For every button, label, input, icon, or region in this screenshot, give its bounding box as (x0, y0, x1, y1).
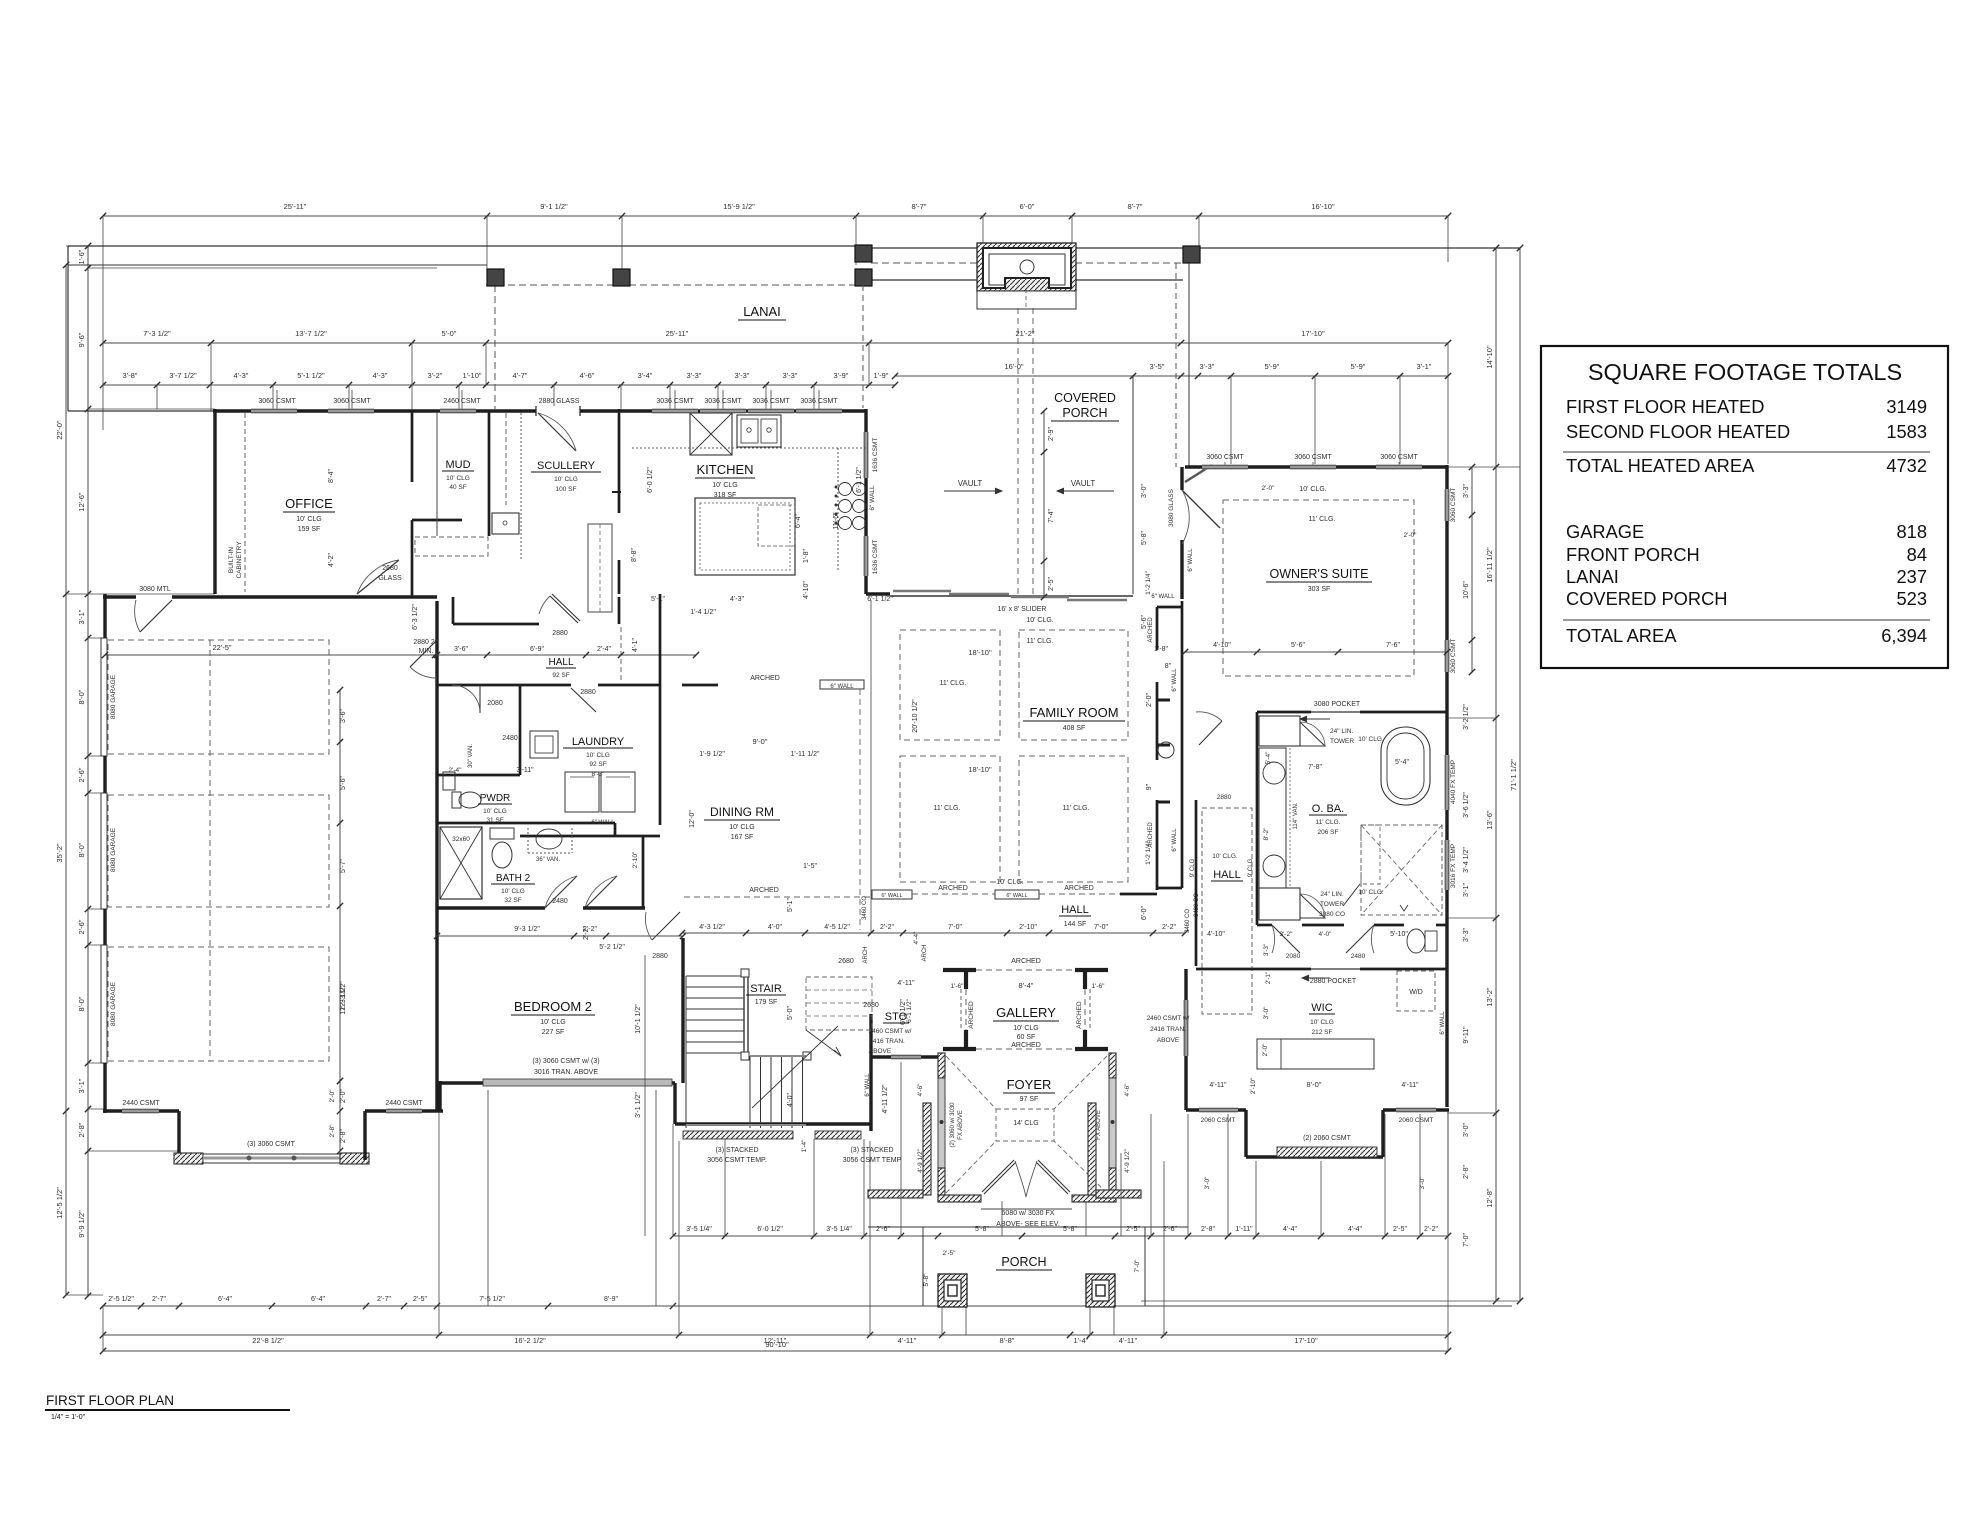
svg-text:6" WALL: 6" WALL (1006, 893, 1027, 899)
svg-text:4'-6": 4'-6" (917, 1083, 924, 1097)
wic island (1257, 1039, 1374, 1069)
svg-text:17'-10": 17'-10" (1294, 1336, 1318, 1345)
svg-text:2'-8": 2'-8" (340, 1129, 347, 1143)
foyer ceiling dashed diagonals (946, 1056, 996, 1109)
svg-text:ARCHED: ARCHED (938, 885, 968, 892)
gallery pier bottom-right (1075, 1047, 1108, 1051)
svg-text:PORCH: PORCH (1062, 406, 1107, 420)
svg-text:10' CLG: 10' CLG (296, 516, 321, 523)
foyer bottom wall right (1072, 1195, 1116, 1202)
svg-text:SECOND FLOOR HEATED: SECOND FLOOR HEATED (1566, 421, 1790, 442)
svg-text:2880 GLASS: 2880 GLASS (539, 398, 580, 405)
svg-text:2880 POCKET: 2880 POCKET (1310, 978, 1357, 985)
foyer west window (938, 1078, 945, 1168)
svg-text:8'-0": 8'-0" (77, 996, 86, 1011)
svg-text:3016 FX TEMP: 3016 FX TEMP (1450, 844, 1457, 888)
bottom dimension row B2 (103, 1334, 1448, 1336)
svg-text:408 SF: 408 SF (1063, 725, 1086, 732)
door 2480 wc (1346, 925, 1374, 953)
svg-text:1/4" = 1'-0": 1/4" = 1'-0" (51, 1414, 86, 1421)
foyer west wall hatched (938, 1053, 945, 1078)
fireplace outer hatched walls (977, 243, 1076, 291)
svg-text:1'-4 1/2": 1'-4 1/2" (690, 609, 716, 616)
svg-text:5'-6": 5'-6" (1291, 642, 1305, 649)
svg-text:5'-0": 5'-0" (442, 329, 457, 338)
svg-text:ABOVE: ABOVE (869, 1048, 892, 1055)
svg-text:4'-7": 4'-7" (513, 371, 528, 380)
svg-text:10' CLG.: 10' CLG. (1299, 486, 1326, 493)
svg-text:6'-1 1/2": 6'-1 1/2" (867, 596, 893, 603)
svg-text:13'-6": 13'-6" (1485, 810, 1494, 829)
svg-text:5'-9": 5'-9" (1265, 362, 1280, 371)
owners suite south wall with pocket door (1257, 711, 1311, 714)
svg-text:2'-10": 2'-10" (1250, 1077, 1257, 1094)
svg-text:13'-7 1/2": 13'-7 1/2" (295, 329, 327, 338)
svg-text:4'-6": 4'-6" (1124, 1083, 1131, 1097)
linen tower bottom (1259, 888, 1300, 920)
svg-text:2'-0": 2'-0" (1146, 693, 1153, 707)
svg-text:4'-3": 4'-3" (373, 371, 388, 380)
svg-text:3'-0": 3'-0" (1463, 1123, 1470, 1137)
svg-text:7'-4": 7'-4" (1048, 509, 1055, 523)
svg-text:8": 8" (1165, 663, 1172, 670)
svg-text:2'-7": 2'-7" (377, 1296, 391, 1303)
svg-text:ARCHED: ARCHED (1064, 885, 1094, 892)
bedroom2 window sill (483, 1079, 672, 1086)
lanai post 1 (487, 269, 504, 286)
svg-text:2680: 2680 (382, 565, 398, 572)
svg-text:3'-2": 3'-2" (1280, 931, 1294, 938)
svg-text:6" WALL: 6" WALL (1172, 828, 1178, 852)
svg-text:4'-0": 4'-0" (768, 924, 782, 931)
garage front wall right (365, 1109, 443, 1112)
stair lower flight risers (749, 1056, 751, 1128)
porch slab lines (922, 1227, 924, 1306)
svg-text:16' x 8' SLIDER: 16' x 8' SLIDER (998, 606, 1047, 613)
svg-text:22'-5": 22'-5" (212, 643, 231, 652)
svg-text:3080 CO: 3080 CO (1319, 911, 1345, 918)
svg-text:16'-11 1/2": 16'-11 1/2" (1485, 547, 1494, 583)
svg-text:4'-10": 4'-10" (1207, 931, 1225, 938)
covered porch dashed boundary (871, 262, 978, 264)
bath2 toilet (492, 842, 512, 868)
bedroom2 east wall (681, 938, 684, 1083)
svg-text:FIRST FLOOR PLAN: FIRST FLOOR PLAN (46, 1393, 174, 1408)
niche circle (1158, 742, 1174, 758)
door 3080 MTL (140, 600, 172, 632)
svg-text:3'-11": 3'-11" (516, 767, 534, 774)
svg-text:3060 CSMT: 3060 CSMT (1206, 454, 1244, 461)
svg-text:11' CLG.: 11' CLG. (1063, 805, 1090, 812)
scullery west counter dotted (520, 413, 522, 560)
svg-text:COVERED: COVERED (1054, 391, 1116, 405)
svg-text:8080 GARAGE: 8080 GARAGE (110, 827, 117, 872)
svg-text:HALL: HALL (1213, 869, 1241, 881)
laundry walls (659, 594, 662, 685)
svg-text:3'-3": 3'-3" (735, 371, 750, 380)
svg-text:GALLERY: GALLERY (996, 1005, 1056, 1020)
window 2440 CSMT garage left (122, 1109, 159, 1114)
svg-text:4'-3 1/2": 4'-3 1/2" (699, 924, 725, 931)
svg-text:LAUNDRY: LAUNDRY (572, 736, 625, 748)
svg-text:1636 CSMT: 1636 CSMT (872, 438, 879, 473)
svg-text:3460 CO: 3460 CO (862, 896, 868, 920)
svg-text:2'-4": 2'-4" (449, 767, 463, 774)
gallery pier top-left (943, 968, 976, 972)
svg-text:3'-0": 3'-0" (1263, 1006, 1270, 1020)
svg-text:4732: 4732 (1886, 455, 1927, 476)
svg-text:10' CLG: 10' CLG (446, 475, 470, 482)
svg-text:4'-11 1/2": 4'-11 1/2" (882, 1084, 889, 1114)
fireplace hearth (977, 291, 1076, 309)
owners suite east windows (1445, 489, 1450, 521)
svg-text:5'-2 1/2": 5'-2 1/2" (599, 944, 625, 951)
owner suite corner diagonal window (1185, 465, 1212, 482)
lanai dashed boundary left (486, 284, 857, 286)
mud bench dashed (415, 537, 488, 556)
family room dashed tray rect B (1019, 630, 1128, 740)
svg-text:84: 84 (1907, 544, 1927, 565)
svg-text:3'-1": 3'-1" (1417, 362, 1432, 371)
kitchen east wall (864, 409, 867, 594)
svg-text:4'-5 1/2": 4'-5 1/2" (824, 924, 850, 931)
fireplace circle (1020, 260, 1034, 274)
svg-text:4'-1": 4'-1" (632, 638, 639, 652)
bottom dimension row small left (103, 1305, 673, 1307)
svg-text:4'-11": 4'-11" (1401, 1082, 1419, 1089)
svg-text:1'-11 1/2": 1'-11 1/2" (791, 751, 821, 758)
svg-text:3'-6 1/2": 3'-6 1/2" (1463, 792, 1470, 818)
svg-text:32x60: 32x60 (452, 836, 470, 843)
square footage table frame (1541, 346, 1948, 668)
dining east dashed ceiling (859, 689, 861, 930)
foyer double door leaves (982, 1160, 1014, 1192)
window 3036 CSMT kitchen 4 (796, 409, 842, 414)
right small dims (1471, 467, 1473, 672)
svg-text:2880: 2880 (652, 953, 668, 960)
svg-text:22'-0": 22'-0" (55, 420, 64, 439)
table separator line 2 (1563, 619, 1930, 621)
svg-text:ARCH: ARCH (863, 946, 869, 963)
dining north arched wall (682, 684, 718, 687)
svg-text:PORCH: PORCH (1001, 1255, 1046, 1269)
wing south wall main (172, 595, 437, 598)
svg-text:3'-0": 3'-0" (1204, 1176, 1211, 1190)
door 2680 GLASS office (357, 560, 399, 594)
svg-text:4'-4": 4'-4" (1283, 1226, 1297, 1233)
svg-text:20'-10 1/2": 20'-10 1/2" (912, 699, 919, 733)
svg-text:2'-2": 2'-2" (583, 926, 590, 940)
title underline (45, 1409, 290, 1411)
svg-text:3'-2 1/2": 3'-2 1/2" (1463, 704, 1470, 730)
garage-bedroom corner connector (438, 1081, 441, 1111)
top dimension row 3 right (895, 375, 1448, 377)
svg-text:3'-4": 3'-4" (638, 371, 653, 380)
svg-text:8'-4": 8'-4" (1019, 981, 1034, 990)
svg-text:4'-10": 4'-10" (803, 581, 810, 599)
stair break line (752, 1026, 838, 1108)
svg-text:10'-6": 10'-6" (1463, 581, 1470, 599)
svg-text:2'-9": 2'-9" (1048, 427, 1055, 441)
scullery dashed cabinet lines (505, 413, 507, 505)
svg-text:FX ABOVE: FX ABOVE (1096, 1110, 1102, 1140)
left extension lines (66, 245, 103, 247)
svg-text:8'-2": 8'-2" (1263, 827, 1270, 841)
svg-text:2'-8": 2'-8" (77, 1122, 86, 1137)
svg-text:3060 CSMT: 3060 CSMT (1450, 639, 1457, 674)
stair window sill left (683, 1131, 793, 1139)
svg-text:1'-8": 1'-8" (803, 549, 810, 563)
closet pwdr block walls (436, 685, 439, 823)
svg-text:11' CLG.: 11' CLG. (1316, 819, 1341, 826)
svg-text:3080 MTL: 3080 MTL (139, 586, 171, 593)
svg-text:3'-7 1/2": 3'-7 1/2" (169, 371, 197, 380)
mud locker divider (436, 413, 438, 536)
svg-text:6'-4": 6'-4" (218, 1296, 232, 1303)
garage bay window band (203, 1154, 340, 1163)
svg-text:6" WALL: 6" WALL (881, 893, 902, 899)
laundry sink (530, 731, 558, 758)
svg-text:11' CLG.: 11' CLG. (1027, 638, 1054, 645)
svg-text:1636 CSMT: 1636 CSMT (872, 540, 879, 575)
wic bay right wall (1381, 1110, 1384, 1157)
covered porch post (1183, 246, 1200, 263)
svg-text:2440 CSMT: 2440 CSMT (122, 1100, 160, 1107)
family east wall mid (1156, 682, 1159, 760)
sto south wall (871, 1055, 938, 1058)
owners suite east wall (1445, 465, 1448, 1107)
svg-text:2'-0": 2'-0" (340, 1089, 347, 1103)
lanai dashed vertical at post line (494, 285, 496, 409)
svg-text:FIRST FLOOR HEATED: FIRST FLOOR HEATED (1566, 396, 1764, 417)
svg-text:6'-1 1/2": 6'-1 1/2" (856, 467, 863, 493)
shower door (1343, 884, 1360, 906)
svg-text:6080 w/ 3030 FX: 6080 w/ 3030 FX (1002, 1210, 1055, 1217)
gallery arch dashed right (1084, 989, 1086, 1030)
svg-text:6'-0 1/2": 6'-0 1/2" (647, 467, 654, 493)
svg-text:3'-5": 3'-5" (1150, 362, 1165, 371)
svg-text:3080 POCKET: 3080 POCKET (1314, 701, 1361, 708)
gallery arch dashed top (976, 969, 1075, 971)
svg-text:1'-5": 1'-5" (803, 863, 817, 870)
stair lower tread edge (750, 1055, 806, 1057)
svg-text:97 SF: 97 SF (1020, 1096, 1039, 1103)
svg-text:2880: 2880 (580, 689, 596, 696)
right dimension column outer (1519, 248, 1521, 1301)
svg-text:3'-6": 3'-6" (340, 709, 347, 723)
svg-text:5'-1 1/2": 5'-1 1/2" (297, 371, 325, 380)
svg-text:8'-0": 8'-0" (77, 689, 86, 704)
garage west wall bottom segment (103, 1063, 106, 1113)
garage bay window jog right (363, 1111, 366, 1160)
top dimension row 3 left (103, 384, 895, 386)
owner suite west wall (1180, 467, 1183, 490)
svg-text:2'-5": 2'-5" (413, 1296, 427, 1303)
svg-text:12'-8": 12'-8" (1485, 1188, 1494, 1207)
lanai bottom edge to office wall (68, 410, 215, 412)
svg-text:(3) STACKED: (3) STACKED (850, 1147, 893, 1154)
svg-text:30" VAN.: 30" VAN. (468, 744, 474, 768)
svg-text:6" WALL: 6" WALL (830, 684, 854, 690)
svg-text:CABINETRY: CABINETRY (236, 541, 243, 579)
svg-text:6" WALL: 6" WALL (865, 1073, 871, 1097)
bedroom2 front wall (437, 1081, 675, 1084)
svg-text:3060 CSMT: 3060 CSMT (1380, 454, 1418, 461)
wc closet wall (642, 836, 645, 908)
garage door dashed bay 2 (108, 795, 329, 907)
svg-text:7'-0": 7'-0" (1094, 924, 1108, 931)
svg-text:GLASS: GLASS (378, 575, 402, 582)
svg-text:18'-10": 18'-10" (968, 765, 992, 774)
beam line fireplace to post4 (1076, 247, 1183, 249)
garage door 1 (101, 638, 107, 756)
svg-text:FOYER: FOYER (1007, 1077, 1052, 1092)
svg-text:GARAGE: GARAGE (1566, 521, 1644, 542)
svg-text:6'-3 1/2": 6'-3 1/2" (412, 604, 419, 630)
svg-text:8'-8": 8'-8" (631, 548, 638, 562)
svg-text:2440 CSMT: 2440 CSMT (385, 1100, 423, 1107)
svg-text:6,394: 6,394 (1881, 625, 1927, 646)
long front extension line (673, 1305, 1512, 1307)
svg-text:2080: 2080 (1286, 953, 1301, 960)
svg-text:3016 TRAN. ABOVE: 3016 TRAN. ABOVE (534, 1069, 598, 1076)
window 1636 CSMT kitchen wall lower (864, 536, 869, 576)
scullery hall east wall (618, 597, 621, 624)
oba west wall (1256, 712, 1259, 925)
svg-text:MUD: MUD (445, 459, 470, 471)
kitchen wall extension line (870, 600, 872, 933)
svg-text:4040 FX TEMP: 4040 FX TEMP (1450, 760, 1457, 804)
svg-text:3'-9": 3'-9" (834, 371, 849, 380)
porch column left (938, 1274, 967, 1307)
svg-text:1'-4": 1'-4" (801, 1139, 808, 1153)
svg-text:25'-11": 25'-11" (284, 202, 307, 211)
svg-text:5'-8": 5'-8" (923, 1273, 930, 1287)
svg-text:OFFICE: OFFICE (285, 496, 333, 511)
svg-text:3'-2": 3'-2" (428, 371, 443, 380)
kitchen sink double (737, 415, 781, 447)
svg-text:4'-9 1/2": 4'-9 1/2" (1124, 1148, 1131, 1172)
svg-text:SCULLERY: SCULLERY (537, 460, 596, 472)
svg-text:303 SF: 303 SF (1308, 586, 1331, 593)
svg-text:10' CLG: 10' CLG (1310, 1019, 1334, 1026)
svg-text:TOTAL AREA: TOTAL AREA (1566, 625, 1677, 646)
svg-text:3060 CSMT: 3060 CSMT (1294, 454, 1332, 461)
svg-text:HALL: HALL (1061, 904, 1089, 916)
garage bay hatched corner left (174, 1153, 203, 1164)
svg-text:BATH 2: BATH 2 (496, 873, 531, 884)
svg-text:2'-1": 2'-1" (1266, 972, 1272, 984)
office built-in dashed cabinetry (244, 413, 246, 592)
svg-text:2'-5 1/2": 2'-5 1/2" (108, 1296, 134, 1303)
hall west wall lower (1195, 800, 1198, 966)
svg-text:12'-5 1/2": 12'-5 1/2" (55, 1187, 64, 1219)
svg-text:LANAI: LANAI (1566, 566, 1619, 587)
svg-text:3'-1": 3'-1" (1463, 883, 1470, 897)
svg-text:COVERED PORCH: COVERED PORCH (1566, 588, 1728, 609)
chimney flue dashed lines (1017, 308, 1019, 594)
svg-text:10' CLG.: 10' CLG. (1212, 853, 1238, 860)
svg-text:2'-2": 2'-2" (1162, 924, 1176, 931)
gallery pier top-right (1075, 968, 1108, 972)
porch column right (1086, 1274, 1115, 1307)
hall south wall segments with arches (684, 896, 872, 898)
svg-text:2'-8": 2'-8" (1201, 1226, 1215, 1233)
bottom dimension row total (103, 1350, 1448, 1352)
window center leaders top (276, 390, 278, 409)
window 2440 CSMT garage right (386, 1109, 422, 1114)
top dimension row 1 (103, 215, 1448, 217)
svg-text:ARCHED: ARCHED (1148, 822, 1154, 848)
svg-text:6" WALL: 6" WALL (1188, 548, 1194, 572)
wic north wall with pocket door (1196, 968, 1311, 971)
svg-text:8'-7": 8'-7" (1128, 202, 1143, 211)
svg-text:10' CLG: 10' CLG (501, 888, 525, 895)
office closet wall (412, 519, 462, 522)
door 2080 closet (479, 685, 481, 713)
svg-text:(3) 3060 CSMT w/ (3): (3) 3060 CSMT w/ (3) (532, 1058, 599, 1065)
scullery south wall (452, 597, 455, 624)
svg-text:ABOVE: ABOVE (1157, 1037, 1180, 1044)
stair dashed upper outline (806, 977, 872, 1030)
garage door dashed bay 3 (108, 947, 329, 1061)
wic window left (1199, 1108, 1238, 1113)
bedroom2 dim row (437, 935, 683, 937)
lanai post 2 (613, 269, 630, 286)
window 3060 CSMT office 2 (328, 409, 374, 414)
svg-text:2'-5": 2'-5" (1048, 577, 1055, 591)
svg-text:4'-2": 4'-2" (328, 553, 335, 567)
svg-text:10' CLG.: 10' CLG. (1358, 889, 1384, 896)
svg-text:8'-3": 8'-3" (592, 771, 606, 778)
svg-text:6" WALL: 6" WALL (1151, 594, 1175, 600)
svg-text:15'-9 1/2": 15'-9 1/2" (723, 202, 755, 211)
svg-text:206 SF: 206 SF (1318, 829, 1339, 836)
svg-text:7'-0": 7'-0" (1463, 1233, 1470, 1247)
svg-text:DINING RM: DINING RM (710, 805, 774, 819)
svg-text:1'-11": 1'-11" (1235, 1226, 1253, 1233)
right hall dashed ceiling (1202, 808, 1252, 1014)
svg-text:6" WALL: 6" WALL (1440, 1011, 1446, 1035)
wic window right (1396, 1108, 1436, 1113)
bath2 shower 32x60 (440, 827, 482, 899)
svg-text:2480: 2480 (502, 735, 518, 742)
garage interior dashed line (209, 640, 211, 1061)
svg-text:2'-5": 2'-5" (1393, 1226, 1407, 1233)
lanai post 3a (855, 245, 872, 262)
bedroom2 door 2480 (545, 876, 577, 908)
svg-text:6'-9": 6'-9" (530, 646, 544, 653)
svg-text:BUILT-IN: BUILT-IN (228, 547, 235, 574)
svg-text:4'-11": 4'-11" (1119, 1336, 1138, 1345)
svg-text:2'-8": 2'-8" (1463, 1165, 1470, 1179)
oba vanity (1259, 748, 1286, 888)
scullery-kitchen wall (618, 409, 621, 513)
svg-text:318 SF: 318 SF (714, 492, 737, 499)
svg-text:10' CLG: 10' CLG (712, 482, 737, 489)
svg-text:5'-6": 5'-6" (1141, 615, 1148, 629)
svg-text:6'-0 1/2": 6'-0 1/2" (757, 1226, 783, 1233)
svg-text:ARCHED: ARCHED (1148, 617, 1154, 643)
svg-text:ARCHED: ARCHED (750, 675, 780, 682)
svg-text:1'-9": 1'-9" (874, 371, 889, 380)
svg-text:10' CLG: 10' CLG (729, 824, 754, 831)
svg-text:3'-1 1/2": 3'-1 1/2" (635, 1092, 642, 1118)
svg-text:2'-2": 2'-2" (880, 924, 894, 931)
stair up arrow diagonal (806, 1030, 841, 1056)
svg-text:2'-0": 2'-0" (329, 1089, 336, 1103)
oba toilet right (1407, 929, 1425, 953)
